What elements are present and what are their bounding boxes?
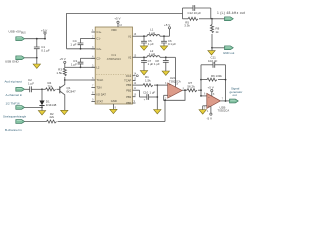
svg-text:3.3k: 3.3k bbox=[184, 24, 190, 28]
capacitor C6 0.1uF bbox=[161, 36, 176, 46]
svg-text:22k: 22k bbox=[50, 115, 55, 119]
ground (input clamp) bbox=[38, 107, 45, 115]
op-amp U2A TS922 bbox=[165, 76, 185, 100]
svg-text:C1-: C1- bbox=[96, 37, 100, 41]
svg-text:PB3: PB3 bbox=[126, 83, 132, 87]
U2B pin 4 bbox=[207, 106, 213, 120]
svg-text:B-channel in: B-channel in bbox=[5, 128, 22, 132]
wire row1 from pin bbox=[136, 35, 148, 37]
wire row2 to op-amp supply bbox=[160, 56, 179, 87]
svg-text:−: − bbox=[169, 94, 171, 98]
wire J1 to +5V node bbox=[25, 38, 45, 40]
svg-text:GND: GND bbox=[111, 99, 117, 103]
svg-text:+5 V: +5 V bbox=[41, 28, 47, 32]
capacitor C8 1uF bbox=[154, 57, 169, 71]
wire B-channel to U2A summing node bbox=[58, 100, 166, 121]
svg-text:V1: V1 bbox=[128, 34, 132, 38]
diode D1 1N4148 bbox=[39, 89, 56, 107]
resistor R3 1.5k bbox=[56, 67, 66, 76]
svg-text:102 pF: 102 pF bbox=[208, 59, 218, 63]
svg-text:I/O DAT: I/O DAT bbox=[96, 93, 106, 97]
svg-text:-5 V: -5 V bbox=[207, 117, 213, 121]
svg-text:56.2k: 56.2k bbox=[187, 84, 195, 88]
ground (Q1 emitter) bbox=[61, 104, 68, 115]
inductor L2 1uH bbox=[147, 49, 160, 58]
svg-text:C2+: C2+ bbox=[96, 47, 101, 51]
capacitor C5 1uF bbox=[141, 36, 154, 46]
capacitor C10 1uF bbox=[136, 90, 158, 101]
svg-text:0.1 µF: 0.1 µF bbox=[41, 49, 50, 53]
op-amp U2B TS922 bbox=[204, 93, 229, 112]
svg-text:1 µF: 1 µF bbox=[148, 42, 154, 46]
svg-text:out: out bbox=[233, 93, 237, 97]
resistor R1 1.5k bbox=[136, 75, 154, 86]
svg-text:1 µF: 1 µF bbox=[28, 81, 34, 85]
resistor R8 1k bbox=[211, 19, 220, 49]
wire U2A + node to ground bbox=[156, 85, 158, 109]
svg-text:IC1: IC1 bbox=[112, 53, 117, 57]
svg-text:BC847: BC847 bbox=[67, 89, 77, 93]
svg-text:+5 V: +5 V bbox=[114, 17, 120, 21]
ground (C10 node) bbox=[154, 110, 161, 114]
node +5V terminal bbox=[41, 28, 47, 39]
svg-text:PB1: PB1 bbox=[126, 95, 132, 99]
wire node pin3 bbox=[67, 48, 96, 50]
resistor R4 75k bbox=[42, 81, 56, 91]
svg-text:USB GND: USB GND bbox=[5, 60, 20, 64]
svg-text:+5 V: +5 V bbox=[60, 57, 66, 61]
svg-text:TS922CA: TS922CA bbox=[218, 109, 230, 113]
wire U2A output node bbox=[182, 89, 187, 91]
wire U2B + input to ground bbox=[203, 106, 207, 110]
ground (C6) bbox=[160, 46, 167, 50]
svg-text:+: + bbox=[169, 83, 171, 87]
svg-text:L2: L2 bbox=[96, 65, 99, 69]
svg-text:1.5k: 1.5k bbox=[145, 79, 151, 83]
svg-text:VDD: VDD bbox=[111, 28, 117, 32]
svg-text:TCLK: TCLK bbox=[96, 78, 103, 82]
connector J5 B-channel bbox=[3, 114, 27, 131]
svg-text:C10: C10 bbox=[143, 90, 149, 94]
inductor L1 1uH bbox=[147, 28, 160, 37]
wire RC block left rail bbox=[182, 8, 184, 19]
svg-text:1 µF: 1 µF bbox=[150, 90, 156, 94]
wire row1 to +5V bbox=[160, 29, 170, 37]
ground (output) bbox=[208, 48, 215, 55]
svg-text:+5 V: +5 V bbox=[208, 85, 214, 89]
connector J1 USB +5V bbox=[9, 30, 27, 41]
svg-text:T2N: T2N bbox=[96, 86, 101, 90]
wire U2A - input bbox=[164, 94, 168, 96]
connector J7 48kHz out bbox=[212, 11, 245, 21]
svg-text:C1+: C1+ bbox=[96, 30, 101, 34]
connector J3 A-channel bbox=[5, 79, 25, 97]
capacitor C1 0.1uF bbox=[34, 38, 50, 58]
svg-text:1 µH: 1 µH bbox=[149, 52, 155, 56]
resistor R5 3.3k bbox=[183, 17, 213, 27]
resistor R2 22k bbox=[25, 112, 57, 123]
svg-text:R6 133k: R6 133k bbox=[211, 74, 222, 78]
wire row2 from pin bbox=[136, 56, 148, 58]
svg-text:75k: 75k bbox=[48, 85, 53, 89]
svg-text:1N4148: 1N4148 bbox=[46, 103, 57, 107]
wire R3 to collector node bbox=[64, 77, 95, 81]
wire J4 row bbox=[25, 107, 43, 109]
svg-text:C12 10 µF: C12 10 µF bbox=[188, 11, 202, 15]
wire RC block right rail bbox=[211, 8, 213, 20]
connector J2 USB GND bbox=[5, 56, 25, 64]
capacitor C12 10uF bbox=[183, 5, 211, 15]
svg-text:GND out: GND out bbox=[223, 51, 234, 55]
wire R1 to U2A + input bbox=[154, 84, 168, 86]
connector J8 GND out bbox=[212, 46, 234, 55]
svg-text:−: − bbox=[208, 96, 210, 100]
wire 48kHz top rail bbox=[67, 14, 183, 49]
wire feedback right rail bbox=[225, 65, 227, 101]
IC1 right pins bbox=[124, 34, 137, 105]
transistor Q1 BC847 bbox=[57, 80, 77, 104]
capacitor C2 1uF bbox=[25, 78, 42, 92]
op-amp IC1 main IC body bbox=[95, 27, 132, 104]
ground (USB) bbox=[33, 58, 40, 69]
node +5V terminal (left of IC) bbox=[60, 57, 66, 67]
svg-text:1 (L) 48-kHz out: 1 (L) 48-kHz out bbox=[217, 11, 245, 15]
capacitor C11 102pF bbox=[201, 55, 226, 67]
svg-text:Aud sig input: Aud sig input bbox=[5, 79, 23, 83]
IC1 left pins bbox=[91, 30, 106, 104]
svg-text:+: + bbox=[208, 105, 210, 109]
svg-text:V2: V2 bbox=[128, 55, 132, 59]
svg-text:1 µF: 1 µF bbox=[70, 42, 76, 46]
svg-text:OC1: OC1 bbox=[126, 74, 132, 78]
svg-text:C2-: C2- bbox=[96, 56, 100, 60]
ground (U2B +) bbox=[199, 110, 206, 114]
capacitor C7 1uF bbox=[141, 57, 153, 70]
pin bubble (OC1) bbox=[136, 75, 138, 77]
capacitor C4 1uF bbox=[70, 38, 95, 48]
svg-text:Sine/square/triangle: Sine/square/triangle bbox=[3, 114, 27, 118]
node A junction bbox=[41, 88, 43, 90]
node +5V terminal (U2B) bbox=[208, 85, 216, 96]
wire J2 to ground node bbox=[25, 57, 38, 59]
ground (C7) bbox=[140, 71, 147, 75]
svg-text:TS922CA: TS922CA bbox=[169, 79, 181, 83]
resistor R6 133k bbox=[201, 74, 226, 81]
wire U2A feedback loop bbox=[164, 90, 185, 101]
connector J4 aux bbox=[6, 101, 25, 109]
svg-text:1 µH: 1 µH bbox=[149, 31, 155, 35]
svg-text:1 µF: 1 µF bbox=[71, 62, 77, 66]
svg-text:1/2 TNF16: 1/2 TNF16 bbox=[6, 101, 20, 105]
capacitor C3 1uF bbox=[65, 58, 95, 68]
svg-text:PB0: PB0 bbox=[126, 101, 132, 105]
node +5V terminal (row1) bbox=[164, 23, 171, 29]
resistor R7 56.2k bbox=[187, 81, 201, 92]
connector J6 signal out bbox=[230, 86, 243, 103]
wire feedback left rail bbox=[200, 65, 202, 96]
wire pin5 bbox=[81, 66, 96, 68]
svg-text:1 µF: 1 µF bbox=[154, 62, 160, 66]
svg-text:1.5k: 1.5k bbox=[56, 71, 62, 75]
ground (IC) bbox=[110, 104, 117, 114]
wire U2B output bbox=[220, 100, 229, 102]
svg-text:0.1 µF: 0.1 µF bbox=[168, 42, 176, 46]
node +5V terminal (IC top) bbox=[114, 17, 122, 27]
svg-text:A-channel in: A-channel in bbox=[6, 93, 23, 97]
svg-text:1 µF: 1 µF bbox=[148, 62, 154, 66]
svg-text:STAT: STAT bbox=[96, 100, 103, 104]
ground (C8) bbox=[162, 71, 169, 75]
svg-text:AT90S2313: AT90S2313 bbox=[107, 57, 121, 61]
ground (C5) bbox=[140, 46, 147, 50]
svg-text:TCAP: TCAP bbox=[124, 79, 131, 83]
wire U2B - input bbox=[200, 95, 207, 97]
svg-text:PB2: PB2 bbox=[126, 88, 132, 92]
